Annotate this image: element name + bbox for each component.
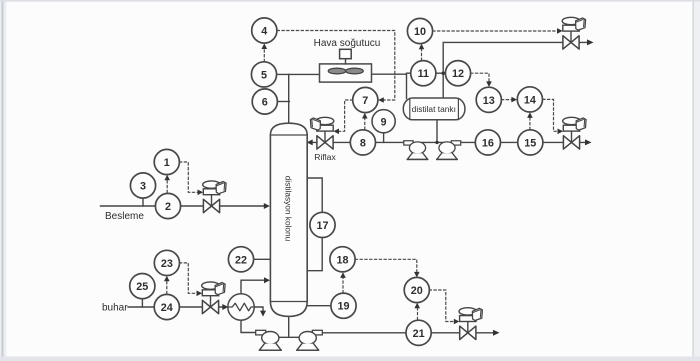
svg-text:17: 17 (316, 220, 328, 232)
arrow into 18 (340, 272, 346, 278)
instrument circle 11 (411, 61, 436, 86)
wire level loop circle 17 (307, 178, 323, 271)
dashed signal 23 to buhar valve (180, 263, 197, 293)
wire reflux/distillate main line (308, 141, 587, 143)
instrument circle 3 (130, 173, 155, 198)
arrow product mid right (585, 139, 592, 145)
svg-text:22: 22 (235, 254, 247, 266)
pump B (tank outlet right) (437, 141, 461, 160)
svg-text:12: 12 (452, 68, 464, 80)
instrument circle 17 (310, 212, 335, 237)
wire stub circle 3 (142, 190, 144, 206)
distillation column vessel (270, 123, 307, 316)
svg-text:16: 16 (482, 137, 494, 149)
reboiler heat exchanger (228, 294, 254, 320)
instrument circle 10 (407, 18, 432, 43)
dashed signal 7 to riflax valve (337, 100, 353, 131)
arrow into bottom-right positioner (454, 319, 460, 325)
dashed signal 19 to 18 (342, 276, 344, 293)
tank right seam (457, 98, 459, 119)
instrument circle 5 (251, 62, 276, 87)
dashed signal 13 to 14 (502, 99, 514, 101)
dashed signal 24 to 23 (166, 279, 168, 294)
instrument circle 4 (252, 18, 277, 43)
right page-edge strip (692, 0, 700, 361)
arrow into 14 bottom (527, 112, 533, 118)
arrow into 7 right (378, 97, 384, 103)
arrow into 10 (419, 44, 425, 50)
instrument circle 6 (252, 89, 277, 114)
column bottom seam (270, 301, 307, 303)
column top seam (270, 134, 307, 136)
wire circle 6 stub (277, 101, 290, 103)
control valve buhar (202, 282, 225, 314)
instrument circle 8 (350, 130, 375, 155)
arrow into mid-right positioner (558, 129, 564, 135)
dashed signal 10 to top-right valve (433, 30, 558, 32)
arrow into 1 (164, 175, 170, 181)
distillate tank vessel (403, 98, 465, 120)
svg-text:7: 7 (362, 95, 368, 107)
svg-text:14: 14 (524, 94, 536, 106)
instrument circle 15 (518, 130, 543, 155)
wire reboiler right outlet down (254, 307, 263, 313)
arrow into 4 (262, 43, 268, 49)
svg-text:23: 23 (161, 258, 173, 270)
control valve top right (562, 17, 585, 49)
svg-text:1: 1 (164, 157, 170, 169)
wire air cooler outlet to tank (372, 74, 407, 98)
instrument circle 20 (404, 277, 429, 302)
pump D (column bottoms right) (297, 330, 323, 350)
wire column bottom drop to pumps (278, 316, 301, 338)
arrow into buhar valve positioner (197, 291, 203, 297)
arrow reboiler vapor into column (264, 277, 270, 283)
tank left seam (409, 98, 411, 119)
arrow bottoms product (493, 330, 500, 336)
wire feed line (Besleme) to column (101, 205, 268, 207)
svg-text:24: 24 (161, 302, 173, 314)
junction dot header cross (442, 72, 445, 75)
svg-text:8: 8 (360, 137, 366, 149)
arrow into 7 bottom (362, 113, 368, 119)
instrument circle 22 (228, 247, 253, 272)
control valve bottom right (459, 308, 482, 340)
instrument circle 9 (372, 110, 395, 133)
svg-text:distilat tankı: distilat tankı (412, 104, 456, 114)
junction dot tank drop (435, 141, 438, 144)
bottom page-edge strip (0, 357, 700, 361)
instrument circle 7 (353, 87, 378, 112)
instrument circle 14 (517, 87, 542, 112)
dashed signal 8 to 7 (364, 117, 366, 130)
wire circle 9 stub (383, 130, 385, 142)
instrument circle 16 (475, 130, 500, 155)
svg-text:20: 20 (411, 285, 423, 297)
svg-text:5: 5 (261, 69, 267, 81)
wire stub circle 25 (141, 292, 143, 307)
arrow into top-right positioner (557, 28, 563, 34)
pump A (tank outlet left) (404, 141, 428, 160)
arrow down at reboiler outlet (260, 311, 266, 317)
dashed signal 12 to 13 (471, 73, 489, 84)
arrow feed into column (264, 203, 270, 209)
instrument circle 1 (154, 149, 179, 174)
control valve Riflax (310, 117, 333, 149)
air cooler fan blades (328, 68, 346, 74)
svg-text:4: 4 (261, 26, 267, 38)
wire circle 22 to column (253, 258, 271, 260)
instrument circle 23 (154, 250, 179, 275)
arrow into riflax positioner (333, 129, 339, 135)
svg-text:3: 3 (140, 181, 146, 193)
top page-edge line (0, 0, 700, 2)
arrow into feed valve positioner (198, 190, 204, 196)
svg-text:Riflax: Riflax (314, 152, 336, 162)
svg-text:2: 2 (165, 201, 171, 213)
instrument circle 24 (154, 294, 179, 319)
wire tank bottom drop (436, 120, 438, 143)
svg-text:11: 11 (418, 68, 429, 80)
dashed signal 14 to mid-right valve (543, 99, 559, 131)
svg-text:15: 15 (524, 137, 536, 149)
svg-text:Besleme: Besleme (105, 211, 144, 222)
dashed signal 4 to 7 (277, 31, 395, 101)
instrument circle 21 (406, 320, 431, 345)
wire buhar line to reboiler (128, 306, 224, 308)
svg-text:19: 19 (337, 301, 349, 313)
wire reboiler top to column (241, 280, 267, 295)
instrument circle 2 (155, 193, 180, 218)
wire tank top to top-right valve (443, 42, 588, 98)
wire column top riser (288, 74, 290, 124)
instrument circle 19 (331, 293, 356, 318)
instrument circle 13 (476, 87, 501, 112)
pump C (column bottoms left) (256, 330, 282, 350)
arrow into 23 (164, 276, 170, 282)
control valve feed (203, 181, 226, 213)
instrument circle 18 (330, 247, 355, 272)
arrow into 13 (486, 81, 492, 87)
wire tank instrument header 11-12 (407, 72, 459, 74)
wire circle 5 to air cooler (276, 73, 320, 75)
instrument circle 25 (130, 274, 155, 299)
dashed signal 11 to 10 (421, 47, 423, 60)
svg-text:distilasyon kolonu: distilasyon kolonu (284, 176, 294, 242)
dashed signal 5 to 4 (263, 47, 265, 62)
dashed signal 2 to 1 (166, 178, 168, 193)
svg-text:Hava soğutucu: Hava soğutucu (314, 38, 381, 49)
dashed signal 15 to 14 (529, 116, 531, 130)
svg-text:13: 13 (483, 95, 495, 107)
svg-text:18: 18 (336, 254, 348, 266)
wire reboiler bottom to pump C (241, 320, 257, 333)
svg-text:10: 10 (414, 26, 426, 38)
instrument circle 12 (445, 61, 470, 86)
arrow reflux into column (307, 139, 313, 145)
svg-text:9: 9 (381, 116, 387, 128)
svg-text:6: 6 (262, 97, 268, 109)
dashed signal 20 to bottom-right valve (429, 290, 455, 322)
dashed signal 21 to 20 (417, 307, 419, 320)
svg-text:25: 25 (136, 281, 148, 293)
air cooler box (Hava sogutucu) (320, 64, 372, 82)
wire circle 19 to column (307, 305, 342, 307)
dashed signal 1 to feed valve (180, 162, 198, 192)
arrow into 20 bottom (414, 303, 420, 309)
arrow into 14 (511, 97, 517, 103)
svg-text:21: 21 (413, 328, 425, 340)
left page-edge strip (0, 0, 7, 361)
arrow distillate product top right (587, 39, 594, 45)
wire bottoms line pumps to right arrow (323, 332, 495, 334)
air cooler motor stem and box (345, 59, 347, 64)
dashed signal 18 to 20 (355, 259, 417, 274)
svg-text:buhar: buhar (102, 303, 128, 314)
arrow buhar into reboiler (222, 304, 228, 310)
control valve mid right (563, 117, 586, 149)
arrow into 20 top (414, 272, 420, 278)
